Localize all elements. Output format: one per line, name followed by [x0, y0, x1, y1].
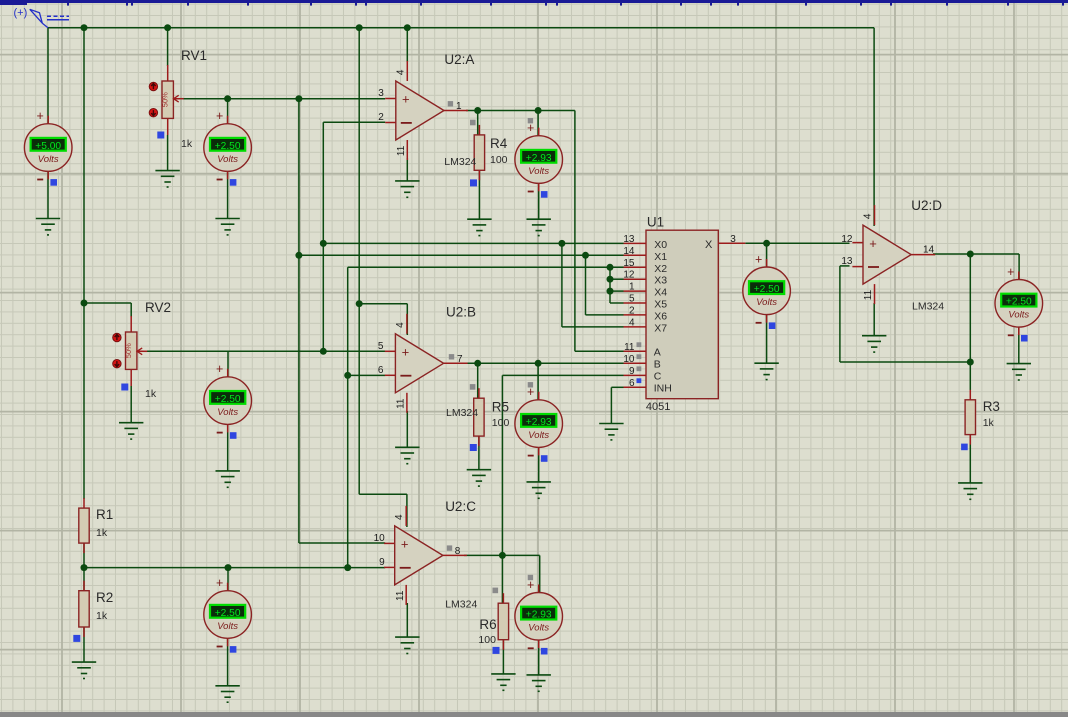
svg-text:6: 6 — [378, 365, 384, 376]
wire INH to ground — [611, 386, 623, 388]
wire X3 stub link — [610, 278, 624, 280]
svg-text:C: C — [654, 370, 662, 382]
wire top +5V rail — [48, 27, 874, 29]
voltmeter +2.93 (U2:C out) — [515, 575, 563, 655]
wire meter8 to ground — [766, 315, 768, 363]
svg-text:U2:A: U2:A — [444, 52, 474, 67]
wire U2:D output — [933, 253, 1019, 255]
wire U2:B pin 11 to ground — [406, 411, 408, 447]
junction — [81, 300, 88, 307]
svg-text:+: + — [869, 236, 877, 251]
voltmeter +2.50 (RV1 wiper) — [204, 109, 252, 186]
potentiometer RV2 — [113, 316, 147, 386]
voltmeter +2.50 (U2:D out) — [995, 265, 1043, 342]
voltmeter +2.93 (U2:B out) — [515, 382, 563, 462]
voltmeter +2.50 (U1 X out) — [743, 252, 791, 329]
svg-text:+: + — [527, 578, 534, 592]
svg-text:(+): (+) — [14, 7, 28, 19]
svg-text:R6: R6 — [479, 617, 496, 632]
svg-text:R5: R5 — [492, 400, 509, 415]
wire U2:B pin 6 branch — [348, 374, 386, 376]
svg-text:1k: 1k — [181, 138, 193, 150]
ground — [395, 181, 419, 197]
junction — [582, 252, 589, 259]
svg-text:13: 13 — [841, 256, 853, 267]
svg-text:+2.93: +2.93 — [526, 153, 552, 164]
svg-text:RV2: RV2 — [145, 300, 171, 315]
svg-text:100: 100 — [490, 154, 508, 166]
wire RV1 to ground — [167, 135, 169, 171]
ground — [216, 471, 240, 487]
wire U2:C output net — [464, 554, 540, 556]
voltmeter +2.93 (U2:A out) — [515, 118, 563, 198]
ground — [958, 483, 982, 499]
svg-text:U2:B: U2:B — [446, 305, 476, 320]
svg-text:LM324: LM324 — [912, 301, 944, 313]
wire X2 feed vertical net — [347, 267, 349, 567]
ground — [36, 219, 60, 235]
svg-text:4: 4 — [863, 213, 874, 219]
op-amp U2:D — [852, 205, 935, 304]
op-amp U2:C — [384, 506, 467, 605]
svg-text:7: 7 — [457, 354, 463, 365]
wire meter1 to ground — [47, 172, 49, 219]
svg-text:+: + — [402, 345, 410, 360]
power terminal (+) — [14, 7, 70, 28]
junction — [81, 564, 88, 571]
wire rail right drop to U2:D power pin 4 — [873, 28, 875, 226]
wire meter5 to ground — [538, 448, 540, 482]
wire drop to R4 — [477, 111, 479, 137]
junction — [295, 95, 302, 102]
svg-text:1k: 1k — [96, 610, 108, 622]
junction — [474, 107, 481, 114]
wire R3 to ground — [969, 435, 971, 483]
ground — [72, 662, 96, 678]
wire U2:C pin 11 to ground — [406, 603, 408, 637]
svg-text:X2: X2 — [654, 263, 667, 275]
svg-text:Volts: Volts — [528, 166, 549, 177]
svg-text:11: 11 — [395, 590, 406, 601]
svg-text:12: 12 — [623, 270, 635, 281]
resistor R6 — [498, 593, 508, 650]
ground — [527, 482, 551, 498]
svg-text:U1: U1 — [647, 215, 664, 230]
wire R6 to ground — [502, 640, 504, 674]
wire X0 feed — [323, 242, 623, 244]
multiplexer U1 4051 — [623, 215, 745, 413]
svg-text:4: 4 — [629, 317, 635, 328]
wire drop to voltmeter 4 — [227, 351, 229, 377]
svg-text:Volts: Volts — [38, 154, 59, 165]
svg-text:X: X — [705, 239, 713, 251]
wire U2:A output to U1 pin A — [466, 110, 575, 112]
resistor R3 — [965, 390, 975, 445]
svg-text:+5.00: +5.00 — [35, 141, 61, 152]
wire X1 feed — [299, 254, 624, 256]
svg-text:1: 1 — [629, 282, 635, 293]
svg-text:+: + — [1007, 265, 1014, 279]
ground — [527, 675, 551, 691]
wire R5 to ground — [478, 436, 480, 470]
svg-text:+2.93: +2.93 — [526, 610, 552, 621]
svg-text:+: + — [402, 92, 410, 107]
svg-text:Volts: Volts — [1008, 310, 1029, 321]
svg-text:100: 100 — [492, 417, 510, 429]
svg-text:+2.50: +2.50 — [215, 394, 241, 405]
svg-text:+: + — [37, 109, 44, 123]
svg-text:R2: R2 — [96, 590, 113, 605]
wire R2 to ground — [83, 627, 85, 662]
svg-text:Volts: Volts — [528, 430, 549, 441]
junction — [474, 360, 481, 367]
wire branch to RV2 — [84, 302, 131, 304]
junction — [81, 24, 88, 31]
ground — [155, 171, 179, 187]
junction — [607, 276, 614, 283]
junction — [499, 552, 506, 559]
svg-text:+: + — [527, 121, 534, 135]
wire RV2 to ground — [130, 386, 132, 423]
junction — [535, 360, 542, 367]
ground — [862, 336, 886, 352]
wire rail long drop to op-amp power — [358, 28, 360, 495]
junction — [344, 564, 351, 571]
voltmeter +5.00 — [24, 109, 72, 186]
wire U2:D pin 13 feedback — [840, 265, 850, 267]
op-amp U2:B — [385, 314, 468, 413]
resistor R1 — [79, 498, 89, 553]
svg-text:4: 4 — [395, 322, 406, 328]
svg-text:+: + — [216, 576, 223, 590]
junction — [356, 300, 363, 307]
svg-text:14: 14 — [623, 246, 635, 257]
resistor R5 — [474, 388, 484, 446]
svg-text:9: 9 — [629, 366, 635, 377]
svg-text:6: 6 — [629, 378, 635, 389]
svg-text:+: + — [527, 385, 534, 399]
svg-text:X3: X3 — [654, 275, 667, 287]
svg-text:11: 11 — [396, 145, 407, 156]
svg-text:11: 11 — [624, 342, 635, 353]
svg-text:Volts: Volts — [528, 623, 549, 634]
svg-text:+2.50: +2.50 — [1006, 297, 1032, 308]
svg-text:2: 2 — [629, 305, 635, 316]
wire branch to U2:B power pin 4 — [359, 303, 407, 305]
svg-text:U2:C: U2:C — [445, 499, 476, 514]
svg-text:R3: R3 — [983, 399, 1000, 414]
svg-text:LM324: LM324 — [445, 599, 477, 611]
ground — [1007, 364, 1031, 380]
wire meter9 to ground — [1018, 328, 1020, 364]
svg-text:3: 3 — [730, 234, 736, 245]
wire meter4 to ground — [227, 425, 229, 471]
svg-text:11: 11 — [396, 398, 407, 409]
svg-text:B: B — [654, 358, 661, 370]
wire drop to voltmeter 2 — [227, 99, 229, 124]
junction — [404, 24, 411, 31]
voltmeter +2.50 (RV2 wiper) — [204, 362, 252, 439]
wire rail to RV1 — [167, 28, 169, 66]
wire to U2:A power pin 4 — [406, 28, 408, 62]
svg-text:5: 5 — [378, 341, 384, 352]
svg-text:+: + — [216, 362, 223, 376]
svg-text:1: 1 — [456, 101, 462, 112]
svg-text:X4: X4 — [654, 287, 667, 299]
op-amp U2:A — [385, 61, 468, 160]
wire U2:A pin 2 feedback net — [323, 121, 385, 123]
junction — [607, 288, 614, 295]
svg-text:RV1: RV1 — [181, 48, 207, 63]
wire drop to R5 — [477, 363, 479, 399]
junction — [763, 240, 770, 247]
svg-text:+: + — [216, 109, 223, 123]
wire output down to R3 — [969, 254, 971, 390]
svg-text:9: 9 — [379, 557, 385, 568]
svg-text:U2:D: U2:D — [911, 198, 942, 213]
wire rail down to R1 — [83, 28, 85, 499]
svg-text:+: + — [401, 537, 409, 552]
ground — [599, 424, 623, 440]
svg-text:3: 3 — [378, 88, 384, 99]
junction — [344, 372, 351, 379]
wire U2:B output to U1 pin B — [466, 362, 624, 364]
wire RV2 wiper to U2:B pin 5 — [147, 350, 385, 352]
ground — [491, 674, 515, 690]
svg-text:8: 8 — [455, 546, 461, 557]
svg-text:X7: X7 — [654, 322, 667, 334]
svg-text:2: 2 — [378, 112, 384, 123]
svg-text:+2.50: +2.50 — [215, 141, 241, 152]
wire U2:A pin 11 to ground — [406, 158, 408, 181]
wire R4 to ground — [478, 170, 480, 219]
svg-text:LM324: LM324 — [444, 156, 476, 168]
junction — [224, 95, 231, 102]
svg-text:12: 12 — [841, 234, 853, 245]
ground — [395, 447, 419, 463]
svg-text:10: 10 — [374, 533, 386, 544]
junction — [295, 252, 302, 259]
junction — [558, 240, 565, 247]
wire U2:C output up to U1 pin C — [501, 375, 503, 604]
junction — [225, 564, 232, 571]
svg-text:15: 15 — [623, 258, 635, 269]
ground — [467, 219, 491, 235]
svg-text:100: 100 — [478, 634, 496, 646]
svg-text:LM324: LM324 — [446, 407, 478, 419]
wire X1-X6 link — [585, 255, 587, 315]
svg-text:4: 4 — [394, 514, 405, 520]
junction — [535, 107, 542, 114]
junction — [967, 359, 974, 366]
wire U1 X output to U2:D pin 12 — [745, 242, 849, 244]
svg-text:X5: X5 — [654, 299, 667, 311]
ground — [527, 219, 551, 235]
top window border bar — [0, 0, 1068, 3]
junction — [356, 24, 363, 31]
svg-text:13: 13 — [623, 234, 635, 245]
svg-text:11: 11 — [863, 289, 874, 300]
svg-text:Volts: Volts — [217, 407, 238, 418]
ground — [119, 423, 143, 439]
svg-text:50%: 50% — [161, 92, 170, 107]
wire meter2 to ground — [227, 172, 229, 219]
ground — [754, 363, 778, 379]
wire meter6 to ground — [227, 639, 229, 686]
svg-text:INH: INH — [654, 382, 672, 394]
svg-text:X6: X6 — [654, 310, 667, 322]
svg-text:5: 5 — [629, 294, 635, 305]
wire X4 stub link — [610, 290, 624, 292]
svg-text:R4: R4 — [490, 136, 508, 151]
wire X2-X5 link — [609, 267, 611, 303]
ground — [215, 686, 239, 702]
junction — [320, 240, 327, 247]
svg-text:+2.50: +2.50 — [215, 608, 241, 619]
junction — [967, 251, 974, 258]
ground — [215, 219, 239, 235]
wire RV1 wiper net vertical to U2:C pin 10 — [298, 99, 300, 543]
wire drop to voltmeter 5 — [537, 363, 539, 400]
svg-text:4051: 4051 — [646, 401, 670, 413]
svg-text:Volts: Volts — [756, 297, 777, 308]
wire meter7 to ground — [538, 641, 540, 675]
svg-text:+2.50: +2.50 — [754, 284, 780, 295]
wire U2:D pin 11 to ground — [873, 303, 875, 336]
potentiometer RV1 — [149, 65, 184, 135]
svg-text:1k: 1k — [145, 388, 157, 400]
svg-text:Volts: Volts — [217, 621, 238, 632]
wire meter3 to ground — [538, 183, 540, 219]
svg-text:10: 10 — [623, 354, 635, 365]
ground — [395, 637, 419, 653]
svg-text:1k: 1k — [983, 417, 995, 429]
svg-text:R1: R1 — [96, 507, 113, 522]
svg-text:50%: 50% — [124, 343, 133, 358]
ground — [467, 470, 491, 486]
wire drop to voltmeter 3 — [537, 111, 539, 137]
svg-text:1k: 1k — [96, 527, 108, 539]
junction — [320, 348, 327, 355]
svg-text:4: 4 — [395, 69, 406, 75]
resistor R4 — [474, 125, 484, 180]
wire R1 to R2 — [83, 543, 85, 591]
junction — [164, 24, 171, 31]
resistor R2 — [79, 581, 89, 637]
voltmeter +2.50 (divider) — [204, 576, 252, 653]
wire rail to battery meter — [47, 28, 49, 124]
svg-text:X0: X0 — [654, 239, 667, 251]
wire X0-X7 link — [561, 243, 563, 327]
svg-text:14: 14 — [923, 245, 935, 256]
svg-text:+: + — [755, 252, 762, 266]
svg-text:A: A — [654, 346, 661, 358]
wire drop to voltmeter 6 — [227, 568, 229, 591]
junction — [607, 264, 614, 271]
wire R1/R2 divider rail to U2:C pin 9 — [84, 567, 385, 569]
svg-text:Volts: Volts — [217, 154, 238, 165]
wire RV1 wiper to U2:A pin 3 — [183, 98, 385, 100]
svg-text:X1: X1 — [654, 251, 667, 263]
wire drop to voltmeter 8 — [766, 243, 768, 267]
svg-text:+2.93: +2.93 — [526, 417, 552, 428]
